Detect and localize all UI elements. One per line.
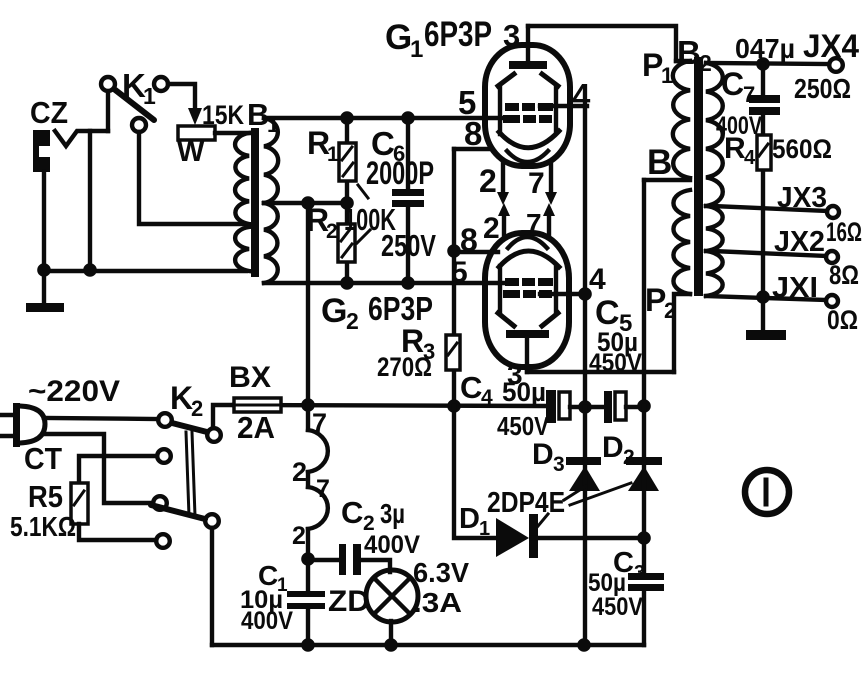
svg-text:1: 1	[410, 36, 423, 63]
svg-text:C: C	[721, 66, 744, 102]
svg-text:4: 4	[481, 386, 493, 409]
svg-text:50µ: 50µ	[502, 377, 546, 407]
svg-text:CT: CT	[24, 441, 62, 476]
svg-text:0Ω: 0Ω	[827, 305, 858, 335]
svg-text:7: 7	[316, 475, 330, 503]
svg-text:8: 8	[464, 115, 482, 152]
svg-text:2: 2	[479, 163, 497, 199]
svg-text:R5: R5	[28, 479, 63, 514]
svg-text:W: W	[177, 136, 205, 168]
svg-text:JX3: JX3	[777, 182, 827, 214]
svg-text:.3A: .3A	[413, 587, 462, 618]
svg-text:6P3P: 6P3P	[368, 290, 433, 327]
svg-text:G: G	[321, 292, 347, 330]
svg-text:7: 7	[312, 408, 327, 438]
svg-text:4: 4	[572, 77, 591, 114]
svg-text:1: 1	[143, 83, 156, 109]
svg-text:4: 4	[589, 263, 606, 296]
svg-text:2A: 2A	[237, 410, 275, 445]
svg-text:BX: BX	[229, 361, 271, 394]
svg-text:2: 2	[326, 220, 338, 243]
svg-text:3: 3	[553, 453, 565, 476]
svg-text:270Ω: 270Ω	[377, 352, 432, 382]
svg-text:5: 5	[451, 256, 468, 289]
svg-text:047µ: 047µ	[735, 33, 795, 64]
svg-text:2: 2	[346, 308, 359, 334]
svg-text:3µ: 3µ	[380, 498, 405, 529]
svg-text:450V: 450V	[592, 593, 643, 621]
svg-text:2: 2	[292, 522, 306, 550]
svg-text:400V: 400V	[364, 531, 420, 559]
svg-text:JX2: JX2	[774, 226, 825, 258]
svg-text:4: 4	[744, 147, 756, 169]
svg-text:3: 3	[634, 562, 645, 584]
svg-text:G: G	[385, 18, 412, 57]
svg-text:7: 7	[743, 82, 755, 107]
svg-text:2: 2	[191, 396, 203, 421]
svg-text:15K: 15K	[202, 100, 244, 130]
svg-text:3: 3	[503, 18, 520, 53]
svg-text:2: 2	[292, 457, 307, 487]
svg-text:D: D	[602, 431, 624, 464]
svg-text:6P3P: 6P3P	[424, 15, 492, 54]
svg-text:ZD: ZD	[328, 585, 370, 618]
svg-text:8: 8	[460, 222, 478, 258]
svg-text:8Ω: 8Ω	[829, 260, 859, 290]
svg-text:250Ω: 250Ω	[794, 73, 851, 104]
svg-text:D: D	[459, 503, 480, 535]
svg-text:C: C	[341, 495, 363, 530]
svg-text:450V: 450V	[497, 411, 550, 441]
svg-text:JX4: JX4	[803, 28, 859, 64]
svg-text:2DP4E: 2DP4E	[487, 487, 565, 519]
svg-text:2: 2	[623, 446, 635, 469]
svg-text:16Ω: 16Ω	[826, 217, 862, 247]
svg-text:2: 2	[483, 212, 500, 245]
svg-text:250V: 250V	[381, 228, 436, 263]
svg-text:560Ω: 560Ω	[772, 134, 832, 164]
svg-text:1: 1	[661, 63, 673, 88]
svg-text:2: 2	[699, 50, 712, 76]
svg-text:7: 7	[526, 208, 542, 239]
svg-text:C: C	[460, 370, 482, 405]
svg-text:CZ: CZ	[30, 95, 68, 130]
svg-text:2: 2	[664, 298, 676, 323]
svg-text:R: R	[724, 132, 746, 165]
svg-text:~220V: ~220V	[28, 375, 120, 408]
svg-text:1: 1	[327, 143, 339, 166]
svg-text:5.1KΩ: 5.1KΩ	[10, 511, 76, 542]
svg-text:1: 1	[267, 112, 279, 137]
svg-text:B: B	[647, 143, 672, 182]
svg-text:400V: 400V	[241, 607, 293, 635]
svg-text:JXI: JXI	[772, 272, 818, 304]
svg-text:6.3V: 6.3V	[413, 557, 469, 588]
svg-text:B: B	[677, 34, 701, 71]
svg-text:1: 1	[479, 518, 490, 540]
svg-text:7: 7	[528, 167, 545, 200]
svg-text:K: K	[170, 380, 193, 416]
svg-text:450V: 450V	[589, 349, 642, 377]
svg-text:2000P: 2000P	[366, 155, 434, 191]
svg-text:D: D	[532, 438, 554, 471]
